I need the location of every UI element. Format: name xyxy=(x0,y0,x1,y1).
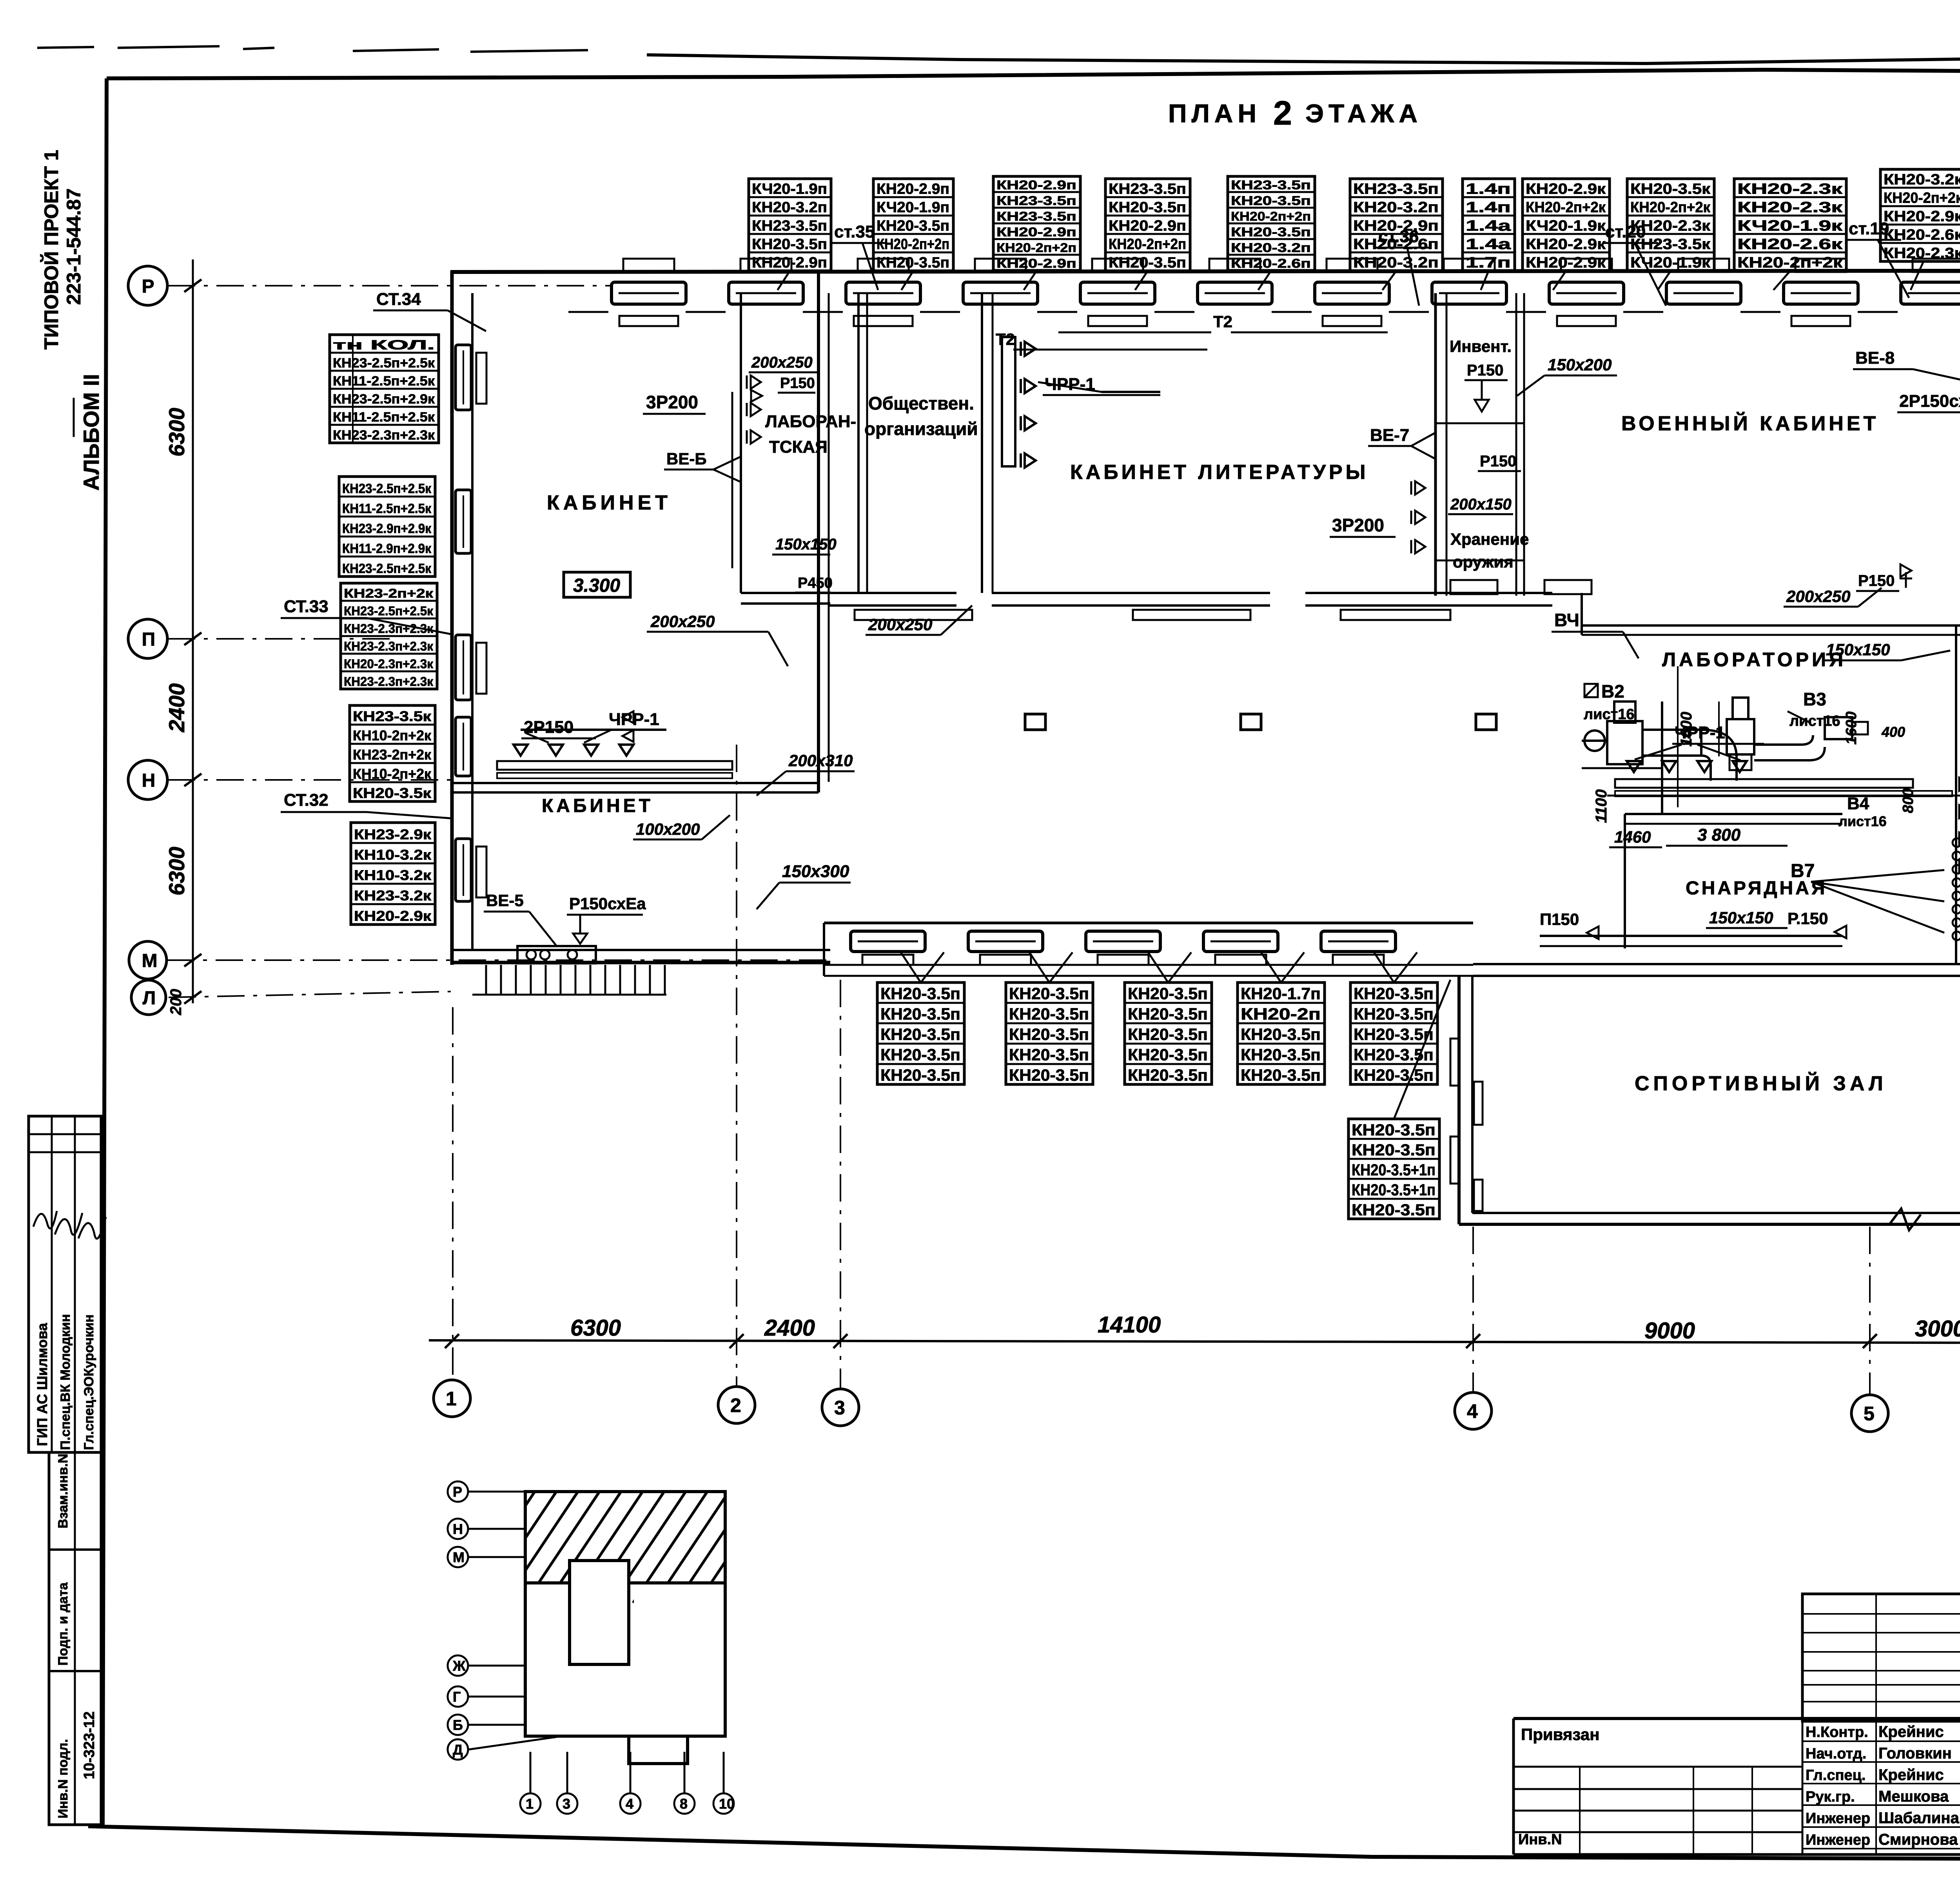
svg-text:Д: Д xyxy=(453,1742,463,1758)
svg-text:КН20-3.5п: КН20-3.5п xyxy=(1109,255,1186,271)
svg-text:КН23-3.5к: КН23-3.5к xyxy=(353,708,432,724)
svg-text:лист16: лист16 xyxy=(1838,813,1887,829)
svg-text:КН20-2.9п: КН20-2.9п xyxy=(752,255,827,271)
label СТ.35 xyxy=(832,222,886,290)
svg-text:КН23-3.5п: КН23-3.5п xyxy=(1109,181,1186,198)
dim text 6300 left lower xyxy=(164,847,189,896)
block A heater band xyxy=(497,761,732,778)
svg-text:В2: В2 xyxy=(1601,681,1624,702)
svg-text:ПЛАН: ПЛАН xyxy=(1168,99,1261,128)
svg-text:ГИП АС Шилмова: ГИП АС Шилмова xyxy=(34,1323,50,1446)
top wall inner face segments xyxy=(568,311,1960,313)
svg-text:Нач.отд.: Нач.отд. xyxy=(1806,1746,1866,1762)
label ВЕ-5 text xyxy=(484,891,557,946)
svg-text:СТ.32: СТ.32 xyxy=(284,790,328,810)
svg-text:2400: 2400 xyxy=(764,1315,815,1341)
svg-text:200х250: 200х250 xyxy=(650,612,715,631)
svg-text:ЛАБОРАН-: ЛАБОРАН- xyxy=(765,412,856,431)
frame left line xyxy=(103,78,107,1827)
schedule table left5 xyxy=(351,823,435,925)
инвент divider xyxy=(1436,422,1524,424)
axis line Р xyxy=(168,285,612,286)
svg-text:КН23-2.9к: КН23-2.9к xyxy=(354,827,432,843)
axis circle Р xyxy=(128,266,167,305)
svg-text:ВОЕННЫЙ КАБИНЕТ: ВОЕННЫЙ КАБИНЕТ xyxy=(1621,412,1879,435)
svg-text:М: М xyxy=(453,1549,465,1565)
axis line 1 vert xyxy=(452,1007,454,1379)
svg-text:КН20-3.5к: КН20-3.5к xyxy=(1630,181,1711,198)
svg-text:КН10-2п+2к: КН10-2п+2к xyxy=(353,766,432,782)
dim 6300 xyxy=(570,1315,621,1341)
svg-text:Взам.инв.N: Взам.инв.N xyxy=(56,1454,71,1528)
label B4 top xyxy=(1552,610,1639,658)
label СТ.34 xyxy=(373,290,486,331)
dim 1600 lab xyxy=(1678,712,1695,747)
svg-text:КН10-3.2к: КН10-3.2к xyxy=(354,847,432,863)
axis bubble 5 xyxy=(1851,1395,1888,1432)
axis circle Н xyxy=(128,760,167,799)
schedule table mid 4 xyxy=(1238,983,1325,1084)
schedule table left4 xyxy=(350,705,435,801)
svg-text:3 800: 3 800 xyxy=(1697,825,1741,845)
svg-text:КН20-3.5п: КН20-3.5п xyxy=(1354,984,1434,1003)
axis line 5 vert xyxy=(1869,1227,1871,1394)
svg-text:Шабалина: Шабалина xyxy=(1878,1809,1960,1827)
label ВОЕННЫЙ КАБИНЕТ xyxy=(1621,412,1879,435)
svg-text:КН20-3.5п: КН20-3.5п xyxy=(1352,1141,1436,1159)
svg-text:Р: Р xyxy=(453,1484,462,1500)
schedule table top 1 xyxy=(749,179,831,271)
svg-text:Т2: Т2 xyxy=(1213,312,1232,331)
svg-text:Гл.спец.: Гл.спец. xyxy=(1806,1767,1866,1784)
svg-text:1.4а: 1.4а xyxy=(1466,218,1511,234)
svg-text:КЧ20-1.9к: КЧ20-1.9к xyxy=(1630,255,1711,271)
svg-text:КН20-3.5п: КН20-3.5п xyxy=(1241,1046,1321,1064)
caption 223-1-544.87 xyxy=(63,189,85,305)
svg-text:КН20-3.5п: КН20-3.5п xyxy=(1241,1025,1321,1044)
svg-text:1100: 1100 xyxy=(1593,789,1610,823)
svg-text:КН10-3.2к: КН10-3.2к xyxy=(354,867,432,883)
label 150х200 xyxy=(1517,355,1617,396)
svg-text:Н.Контр.: Н.Контр. xyxy=(1806,1724,1868,1740)
schedule table top 9 xyxy=(1627,179,1714,271)
label Р150 a xyxy=(751,375,815,402)
wall x3870 xyxy=(1516,293,1524,596)
leader top 10 xyxy=(1773,271,1790,290)
left exterior wall xyxy=(452,270,472,965)
sport hall left pilasters xyxy=(1450,1039,1483,1211)
svg-text:КН20-3.5к: КН20-3.5к xyxy=(353,785,432,801)
svg-text:КН23-2п+2к: КН23-2п+2к xyxy=(344,586,434,600)
label 3Р200 center xyxy=(1330,481,1425,553)
svg-text:Р150: Р150 xyxy=(1467,362,1503,379)
svg-text:150х200: 150х200 xyxy=(1548,355,1612,374)
svg-text:8: 8 xyxy=(680,1796,688,1812)
schedule table top 3 xyxy=(993,176,1080,270)
key plan outline xyxy=(353,1485,1229,1764)
svg-text:5: 5 xyxy=(1864,1403,1875,1425)
axis circle М xyxy=(129,941,167,979)
svg-text:СПОРТИВНЫЙ ЗАЛ: СПОРТИВНЫЙ ЗАЛ xyxy=(1635,1072,1887,1095)
axis line 4 vert xyxy=(1472,1227,1474,1392)
svg-text:КН23-3.5п: КН23-3.5п xyxy=(1353,181,1439,198)
label ЛАБОРАТОРИЯ xyxy=(1662,649,1846,671)
svg-text:КН20-3.5п: КН20-3.5п xyxy=(1231,194,1311,208)
svg-text:КН23-3.5к: КН23-3.5к xyxy=(1630,236,1711,253)
svg-text:КН20-2.9п: КН20-2.9п xyxy=(996,178,1076,192)
ЧРР-1 triangles corridor xyxy=(1021,342,1160,468)
axis circle Л xyxy=(131,980,166,1015)
svg-text:АЛЬБОМ II: АЛЬБОМ II xyxy=(79,374,103,491)
leader mid 1 xyxy=(901,952,944,983)
svg-text:КН20-2п+2к: КН20-2п+2к xyxy=(1526,199,1606,216)
label 200х300 xyxy=(633,815,730,839)
axis bubble 1 xyxy=(434,1380,470,1417)
schedule table top 8 xyxy=(1523,179,1610,271)
svg-text:КН20-3.5п: КН20-3.5п xyxy=(1241,1066,1321,1084)
svg-text:Обществен.: Обществен. xyxy=(868,393,974,413)
dim 1600b lab xyxy=(1843,711,1860,745)
svg-text:КН20-2.6к: КН20-2.6к xyxy=(1884,227,1960,243)
svg-text:ЧРР-1: ЧРР-1 xyxy=(1045,375,1095,394)
dim 3000 xyxy=(1915,1316,1960,1341)
svg-text:ЧРР-1: ЧРР-1 xyxy=(1675,723,1725,742)
top wall window bars xyxy=(612,259,1960,304)
svg-text:200х150: 200х150 xyxy=(1450,496,1512,513)
leader top 9 xyxy=(1658,271,1671,290)
svg-text:КН20-3.5п: КН20-3.5п xyxy=(752,236,827,253)
ЧРР-1 triangles воен xyxy=(1627,745,1747,772)
svg-text:3000: 3000 xyxy=(1915,1316,1960,1341)
svg-text:КН20-3.5п: КН20-3.5п xyxy=(1352,1121,1436,1139)
lab top wall xyxy=(1582,593,1960,635)
block A bottom wall xyxy=(451,950,830,963)
svg-text:6300: 6300 xyxy=(164,408,189,457)
label СТ.19 xyxy=(1846,219,1909,298)
label 150х300 xyxy=(757,862,851,909)
label Привязан xyxy=(1521,1725,1599,1744)
svg-text:КН20-2.6к: КН20-2.6к xyxy=(1737,236,1843,253)
label ВЕ-8 text xyxy=(1853,348,1960,382)
dim 14100 xyxy=(1098,1312,1161,1338)
schedule table top 11 xyxy=(1880,169,1960,262)
svg-text:КН23-2.5п+2.5к: КН23-2.5п+2.5к xyxy=(342,481,432,496)
svg-text:КН20-3.5п: КН20-3.5п xyxy=(877,218,949,234)
svg-text:6300: 6300 xyxy=(570,1315,621,1341)
svg-text:КН20-3.2п: КН20-3.2п xyxy=(1353,255,1439,271)
label Инв.N xyxy=(1518,1831,1562,1848)
dim 1100 lab xyxy=(1593,789,1610,823)
svg-text:1.4а: 1.4а xyxy=(1466,236,1511,253)
svg-text:2: 2 xyxy=(730,1394,741,1416)
label КАБИНЕТ bottom xyxy=(542,796,653,816)
svg-text:ст.19: ст.19 xyxy=(1849,219,1889,238)
leader top 11 xyxy=(1911,261,1924,290)
label Р150сх5а xyxy=(567,894,646,944)
left dimension line xyxy=(184,259,201,1004)
svg-text:КН23-2.3п+2.3к: КН23-2.3п+2.3к xyxy=(344,622,434,636)
dim 3800 xyxy=(1666,825,1788,846)
label Р150 воен xyxy=(1856,564,1912,591)
svg-text:2400: 2400 xyxy=(164,683,189,732)
entrance stair hatch xyxy=(472,965,666,995)
svg-text:1.7п: 1.7п xyxy=(1466,255,1511,271)
svg-text:КН23-3.5п: КН23-3.5п xyxy=(1231,178,1311,192)
svg-text:10-323-12: 10-323-12 xyxy=(81,1711,98,1779)
label 200х250 a xyxy=(749,354,819,372)
label П150 left xyxy=(1540,910,1599,939)
svg-text:1460: 1460 xyxy=(1614,828,1651,846)
title block names xyxy=(1806,1723,1960,1848)
svg-text:КН20-2.3к: КН20-2.3к xyxy=(1884,245,1960,262)
key plan row circles xyxy=(448,1481,557,1760)
axis line 2 vert xyxy=(736,745,737,1386)
svg-text:3Р200: 3Р200 xyxy=(646,392,698,412)
svg-text:КЧ20-1.9к: КЧ20-1.9к xyxy=(1737,218,1843,234)
svg-text:Р150схЕа: Р150схЕа xyxy=(569,894,646,913)
svg-text:150х150: 150х150 xyxy=(1709,908,1773,927)
svg-text:400: 400 xyxy=(1881,724,1905,740)
svg-text:КН20-2.6п: КН20-2.6п xyxy=(1231,256,1311,270)
svg-text:КН20-3.5п: КН20-3.5п xyxy=(1109,199,1186,216)
schedule table top 7 xyxy=(1463,179,1515,271)
wall лаборантская bottom xyxy=(741,593,830,604)
svg-text:Головкин: Головкин xyxy=(1878,1745,1952,1762)
schedule table left2 xyxy=(339,477,435,576)
svg-text:КН23-2.5п+2.9к: КН23-2.5п+2.9к xyxy=(333,392,435,407)
svg-text:КН20-2.9п: КН20-2.9п xyxy=(1109,218,1186,234)
svg-text:В3: В3 xyxy=(1803,689,1826,709)
svg-text:1: 1 xyxy=(526,1796,534,1812)
ВЕ-5 grille xyxy=(517,946,596,963)
svg-text:150х300: 150х300 xyxy=(782,862,849,881)
svg-text:КН23-2.5п+2.5к: КН23-2.5п+2.5к xyxy=(333,356,435,371)
svg-text:КН23-2.3п+2.3к: КН23-2.3п+2.3к xyxy=(333,428,435,443)
svg-text:Р150: Р150 xyxy=(1480,453,1516,470)
dim text 6300 left xyxy=(164,408,189,457)
svg-text:СТ.34: СТ.34 xyxy=(376,290,421,309)
svg-text:КН20-3.2к: КН20-3.2к xyxy=(1884,172,1960,188)
svg-text:П.спец.ВК Молодкин: П.спец.ВК Молодкин xyxy=(58,1314,73,1450)
svg-text:Н: Н xyxy=(142,770,156,791)
svg-text:КН20-3.5п: КН20-3.5п xyxy=(1128,1025,1208,1044)
label СТ.32 xyxy=(281,790,451,818)
svg-text:КН11-2.9п+2.9к: КН11-2.9п+2.9к xyxy=(342,541,432,556)
svg-text:КН23-3.5п: КН23-3.5п xyxy=(752,218,827,234)
label Р150 военный xyxy=(1478,453,1521,471)
svg-text:СТ.33: СТ.33 xyxy=(284,597,328,616)
svg-text:КН23-2.5п+2.5к: КН23-2.5п+2.5к xyxy=(344,604,434,618)
vent units xyxy=(1582,698,1868,781)
axis circle П xyxy=(128,619,167,658)
wall x2505 xyxy=(982,293,993,593)
leader mid6 xyxy=(1394,980,1450,1119)
svg-text:Т2: Т2 xyxy=(996,330,1015,348)
svg-text:Смирнова: Смирнова xyxy=(1878,1831,1958,1848)
sport hall bottom wall xyxy=(1459,1209,1960,1230)
label 2Р150сх2о bott xyxy=(0,0,0,0)
schedule table top 10 xyxy=(1734,179,1846,271)
svg-text:КН20-3.5+1п: КН20-3.5+1п xyxy=(1352,1161,1436,1179)
svg-text:КН20-3.5п: КН20-3.5п xyxy=(1009,984,1089,1003)
axis bubble 2 xyxy=(718,1387,755,1423)
schedule table top 4 xyxy=(1105,179,1190,271)
label ЧРР-1 corridor xyxy=(1043,375,1160,395)
svg-text:КН20-2п+2п: КН20-2п+2п xyxy=(1231,209,1311,223)
svg-text:КН23-3.2к: КН23-3.2к xyxy=(354,888,432,904)
svg-text:КН20-2.9п: КН20-2.9п xyxy=(1353,218,1439,234)
svg-text:3.300: 3.300 xyxy=(573,575,620,596)
svg-text:КН20-3.5п: КН20-3.5п xyxy=(880,1046,960,1064)
svg-text:2Р150: 2Р150 xyxy=(524,718,573,737)
label СТ.33 xyxy=(281,597,451,634)
label Т2 b xyxy=(1058,312,1388,332)
label 200х310 xyxy=(757,751,855,796)
svg-text:КН11-2.5п+2.5к: КН11-2.5п+2.5к xyxy=(342,501,432,516)
label ИНВЕНТ xyxy=(1450,337,1512,412)
svg-text:Подп. и дата: Подп. и дата xyxy=(56,1582,71,1666)
svg-text:Крейнис: Крейнис xyxy=(1878,1723,1944,1740)
svg-text:КН20-3.2п: КН20-3.2п xyxy=(752,199,827,216)
svg-text:КН20-2.9п: КН20-2.9п xyxy=(996,225,1076,239)
label 200х250 blockA xyxy=(647,612,788,666)
title block upper grid xyxy=(1802,1594,1960,1860)
svg-text:КН20-2п+2п: КН20-2п+2п xyxy=(1109,236,1186,253)
svg-text:КН20-2.9к: КН20-2.9к xyxy=(1884,208,1960,225)
svg-text:организаций: организаций xyxy=(864,419,978,439)
label СТ.36 xyxy=(1376,227,1431,306)
svg-text:200х250: 200х250 xyxy=(751,354,813,371)
svg-text:ТСКАЯ: ТСКАЯ xyxy=(769,437,828,457)
svg-text:КН20-3.5п: КН20-3.5п xyxy=(1128,1066,1208,1084)
svg-text:КН20-2.3к: КН20-2.3к xyxy=(1737,181,1843,198)
leader mid 5 xyxy=(1374,952,1417,983)
axis line 3 vert xyxy=(840,980,841,1388)
svg-text:КН20-2п+2к: КН20-2п+2к xyxy=(1630,199,1711,216)
snaryadnaya top wall xyxy=(1625,814,1842,948)
frame top line xyxy=(107,70,1960,78)
svg-text:КН20-2.3п+2.3к: КН20-2.3п+2.3к xyxy=(344,657,434,671)
dim 2400 xyxy=(764,1315,815,1341)
label 2Р150 xyxy=(521,711,633,742)
svg-text:Р150: Р150 xyxy=(1858,572,1895,589)
svg-text:КН20-3.5п: КН20-3.5п xyxy=(1354,1025,1434,1044)
svg-text:Инженер: Инженер xyxy=(1806,1832,1870,1848)
svg-text:КН20-3.5п: КН20-3.5п xyxy=(1354,1005,1434,1023)
svg-text:ЛАБОРАТОРИЯ: ЛАБОРАТОРИЯ xyxy=(1662,649,1846,671)
svg-text:3: 3 xyxy=(834,1397,845,1419)
svg-text:П: П xyxy=(142,629,156,650)
left wall radiators xyxy=(476,353,486,897)
key plan col circles xyxy=(520,1752,735,1814)
svg-text:ВЕ-8: ВЕ-8 xyxy=(1855,348,1895,368)
svg-text:КН20-3.5п: КН20-3.5п xyxy=(1354,1046,1434,1064)
svg-text:2: 2 xyxy=(1273,94,1292,132)
wall x2190 xyxy=(858,293,867,593)
column markers xyxy=(1025,714,1496,730)
wall axis3 vertical xyxy=(818,270,829,792)
lab left wall xyxy=(1661,702,1663,815)
В7 register chain xyxy=(1953,838,1960,940)
svg-text:Мешкова: Мешкова xyxy=(1878,1788,1949,1805)
svg-text:ТИПОВОЙ ПРОЕКТ 1: ТИПОВОЙ ПРОЕКТ 1 xyxy=(40,150,62,350)
axis bubble 4 xyxy=(1455,1392,1492,1429)
svg-text:КН23-3.5п: КН23-3.5п xyxy=(996,209,1076,223)
svg-text:Инженер: Инженер xyxy=(1806,1810,1870,1827)
top wall radiators xyxy=(619,316,1960,326)
schedule table mid 2 xyxy=(1006,983,1093,1084)
svg-text:КН20-1.7п: КН20-1.7п xyxy=(1241,984,1321,1003)
label СПОРТИВНЫЙ ЗАЛ xyxy=(1635,1072,1887,1095)
svg-text:СНАРЯДНАЯ: СНАРЯДНАЯ xyxy=(1686,878,1827,899)
leader top 3 xyxy=(1024,270,1037,290)
label СНАРЯДНАЯ xyxy=(1686,878,1827,899)
svg-text:Хранение: Хранение xyxy=(1450,530,1529,548)
schedule table КОЛ xyxy=(330,335,439,443)
svg-text:800: 800 xyxy=(1900,789,1916,813)
label 200х250 воен xyxy=(1784,587,1882,607)
svg-text:200х250: 200х250 xyxy=(1786,587,1851,605)
svg-text:Гл.спец.ЭОКурочкин: Гл.спец.ЭОКурочкин xyxy=(82,1314,96,1450)
svg-text:тн КОЛ.: тн КОЛ. xyxy=(333,338,435,353)
svg-text:14100: 14100 xyxy=(1098,1312,1161,1338)
svg-text:150х150: 150х150 xyxy=(1826,640,1890,659)
schedule table mid 5 xyxy=(1350,983,1437,1084)
dim 1460 xyxy=(1609,828,1662,847)
svg-text:4: 4 xyxy=(626,1796,633,1812)
axis line П xyxy=(168,638,392,640)
svg-text:КН20-2.3к: КН20-2.3к xyxy=(1630,218,1711,234)
svg-text:1.4п: 1.4п xyxy=(1466,199,1511,216)
svg-text:КАБИНЕТ: КАБИНЕТ xyxy=(547,491,671,514)
leader top 5 xyxy=(1258,270,1271,290)
svg-text:КН20-3.5п: КН20-3.5п xyxy=(1009,1025,1089,1044)
label ВЕ-6 xyxy=(664,450,741,482)
svg-text:Л: Л xyxy=(143,988,156,1008)
svg-text:Н: Н xyxy=(453,1521,463,1537)
label В7 xyxy=(1791,861,1944,933)
schedule table left3 xyxy=(341,583,437,689)
svg-text:150х150: 150х150 xyxy=(775,536,837,553)
svg-text:оружия: оружия xyxy=(1453,553,1514,571)
top exterior wall outer xyxy=(451,270,1960,272)
sport hall top wall xyxy=(1473,964,1960,976)
svg-text:Инв.N подл.: Инв.N подл. xyxy=(56,1739,71,1818)
ЧРР-1 triangles block A xyxy=(514,730,666,756)
frame bottom line xyxy=(88,1826,1960,1861)
left stamp block xyxy=(29,1116,106,1825)
svg-text:КЧ20-1.9к: КЧ20-1.9к xyxy=(1526,218,1606,234)
svg-text:100х200: 100х200 xyxy=(636,820,700,838)
svg-text:200х310: 200х310 xyxy=(788,751,853,770)
corridor benches xyxy=(855,610,1450,620)
dim 800 lab xyxy=(1900,789,1916,813)
svg-text:КН20-3.5п: КН20-3.5п xyxy=(880,1025,960,1044)
leader top 1 xyxy=(778,271,790,290)
svg-text:Б: Б xyxy=(453,1717,463,1733)
corridor south wall xyxy=(829,593,1582,605)
svg-text:КН20-2.9п: КН20-2.9п xyxy=(996,256,1076,270)
dim 1600 vertical leader xyxy=(1678,666,1719,807)
svg-text:200х250: 200х250 xyxy=(868,615,933,634)
svg-text:ст.35: ст.35 xyxy=(834,222,875,241)
svg-text:ЭТАЖА: ЭТАЖА xyxy=(1305,99,1422,128)
label ХРАНЕНИЕ ОРУЖИЯ xyxy=(1450,530,1529,571)
svg-text:Р.150: Р.150 xyxy=(1788,909,1828,928)
svg-text:КН20-3.2п: КН20-3.2п xyxy=(1353,199,1439,216)
svg-text:КН20-2.9к: КН20-2.9к xyxy=(1526,255,1606,271)
svg-text:П150: П150 xyxy=(1540,910,1579,928)
